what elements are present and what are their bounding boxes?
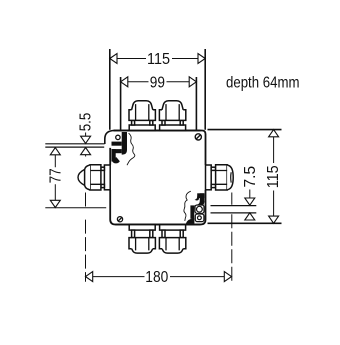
junction box body [110, 131, 205, 225]
box top edge overlay [114, 130, 201, 132]
centerline right (180 extension) [231, 193, 233, 282]
corner screw top-left [116, 135, 120, 139]
cable gland top 2 [159, 101, 185, 131]
mounting flange face top-left [105, 131, 115, 145]
bracket section bottom-right (black) [186, 193, 205, 223]
cable gland bottom 1 [129, 224, 155, 253]
flange plate lines top-left [45, 144, 104, 147]
bracket section top-left (black) [112, 132, 128, 163]
svg-text:depth 64mm: depth 64mm [226, 75, 300, 92]
svg-text:7.5: 7.5 [242, 166, 259, 188]
extension line bottom of 77 [45, 207, 106, 209]
dimension 115 top [110, 51, 205, 68]
flange plate lines bottom-right [211, 206, 257, 213]
extension lines for 115 top [110, 49, 205, 130]
svg-text:180: 180 [145, 269, 168, 286]
cable gland top 1 [129, 101, 155, 131]
dimension 99 top [121, 75, 197, 92]
svg-text:77: 77 [47, 168, 64, 183]
svg-text:115: 115 [265, 165, 282, 188]
box bottom edge overlay [115, 224, 200, 226]
cable gland right [206, 165, 234, 190]
dimension 7.5 right [242, 166, 259, 220]
cable gland left [78, 165, 110, 190]
break line (wavy) top-left [127, 133, 135, 165]
dimension 5.5 left [78, 113, 95, 157]
svg-text:5.5: 5.5 [78, 113, 95, 132]
break line (wavy) bottom-right [184, 191, 191, 221]
svg-text:115: 115 [147, 51, 170, 68]
corner screw top-right (slotted) [195, 134, 201, 140]
svg-text:99: 99 [150, 75, 165, 92]
dimension 115 right [265, 130, 282, 224]
corner screw bottom-left (slotted) [117, 217, 122, 222]
dimension 77 left [47, 148, 64, 208]
extension lines for 99 top [121, 77, 197, 130]
cable gland bottom 2 [159, 224, 185, 253]
extension lines for 115 right [208, 130, 282, 224]
bracket screw pads bottom-right [195, 205, 204, 222]
dimension 180 bottom [86, 269, 232, 286]
centerline left (180 extension) [85, 193, 87, 282]
